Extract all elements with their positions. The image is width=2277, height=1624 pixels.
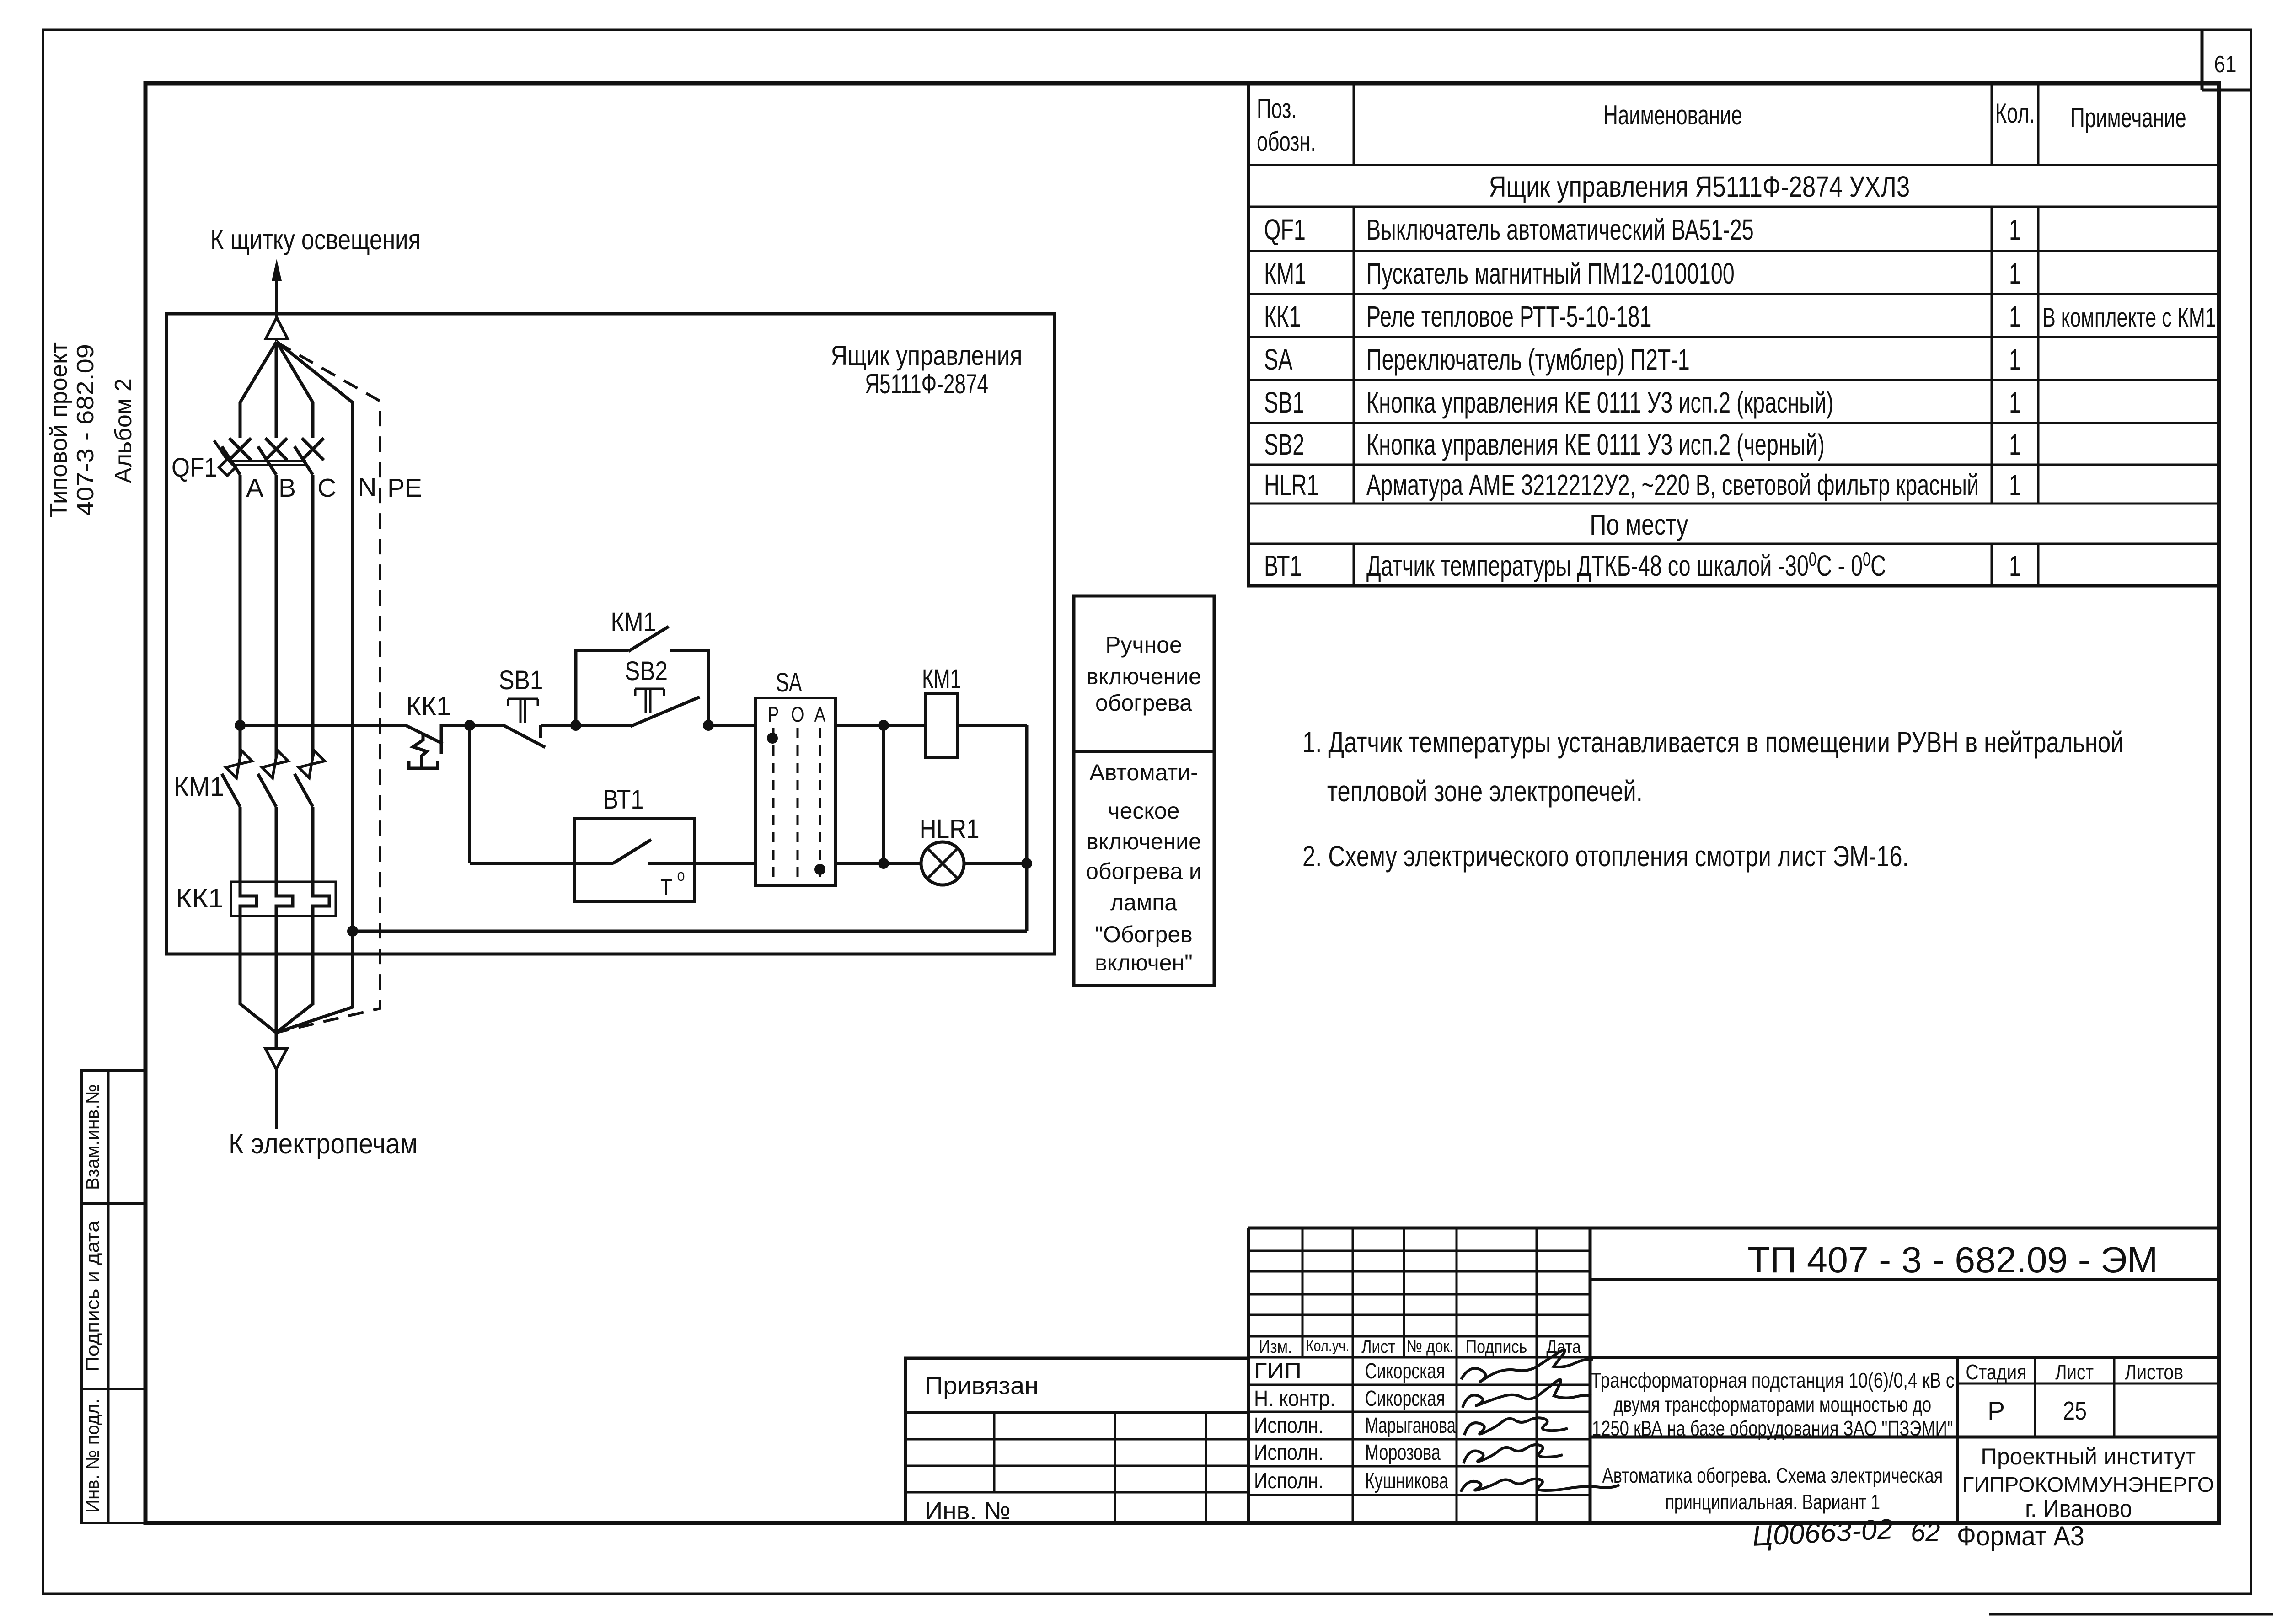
svg-text:Р: Р xyxy=(1988,1396,2005,1426)
circuit breaker QF1 xyxy=(214,438,324,476)
svg-text:Морозова: Морозова xyxy=(1365,1440,1441,1464)
svg-text:Кол.: Кол. xyxy=(1995,98,2035,129)
wire node to KM1 coil xyxy=(884,724,926,727)
svg-text:Альбом 2: Альбом 2 xyxy=(110,378,137,483)
svg-text:обозн.: обозн. xyxy=(1257,126,1316,157)
svg-text:1: 1 xyxy=(2009,386,2021,419)
svg-text:К щитку освещения: К щитку освещения xyxy=(210,224,421,255)
svg-text:Сикорская: Сикорская xyxy=(1365,1386,1445,1410)
wire fan to phase C xyxy=(277,342,313,438)
contactor KM1 main contacts xyxy=(222,750,325,807)
svg-text:По месту: По месту xyxy=(1590,509,1688,541)
svg-text:Трансформаторная подстанция 10: Трансформаторная подстанция 10(6)/0,4 кВ… xyxy=(1591,1368,1955,1392)
svg-text:о: о xyxy=(677,867,685,885)
wire fan to phase A xyxy=(240,342,277,438)
table row КМ1 xyxy=(1264,257,2021,290)
svg-text:HLR1: HLR1 xyxy=(1264,468,1318,501)
svg-text:"Обогрев: "Обогрев xyxy=(1095,922,1193,947)
svg-text:SB2: SB2 xyxy=(625,656,668,686)
svg-text:Автоматика обогрева. Схема эле: Автоматика обогрева. Схема электрическая xyxy=(1602,1464,1943,1487)
BT1 T° mark xyxy=(660,867,685,900)
wire node to SB1 xyxy=(470,724,504,727)
svg-text:PE: PE xyxy=(387,473,422,503)
wire phase C (QF1 to KM1) xyxy=(311,475,315,763)
svg-text:1250 кВА на базе оборудования: 1250 кВА на базе оборудования ЗАО "ПЗЭМИ… xyxy=(1592,1416,1953,1440)
wire PE (dashed) xyxy=(277,343,380,1032)
svg-text:Пускатель магнитный ПМ12-01001: Пускатель магнитный ПМ12-0100100 xyxy=(1366,257,1735,290)
svg-text:Наименование: Наименование xyxy=(1603,100,1742,130)
svg-text:Стадия: Стадия xyxy=(1966,1361,2026,1384)
svg-text:КМ1: КМ1 xyxy=(611,608,656,637)
table row ВТ1 xyxy=(1264,548,2021,582)
wire right rail down xyxy=(1025,725,1029,931)
svg-text:Примечание: Примечание xyxy=(2070,102,2186,133)
svg-text:Р: Р xyxy=(768,702,779,726)
node on right rail xyxy=(1021,858,1032,869)
SA contact dot on Р xyxy=(767,733,778,744)
svg-text:обогрева и: обогрева и xyxy=(1086,858,1202,884)
svg-text:КК1: КК1 xyxy=(1264,300,1301,333)
svg-text:Ручное: Ручное xyxy=(1105,632,1182,658)
album label (rotated) xyxy=(110,378,137,483)
SA position line О (dashed) xyxy=(797,728,799,877)
svg-text:КК1: КК1 xyxy=(406,692,451,722)
svg-text:включен": включен" xyxy=(1095,950,1193,975)
indicator lamp HLR1 xyxy=(921,842,964,885)
signature ГИП xyxy=(1461,1350,1593,1382)
stamp box Подпись и дата xyxy=(82,1203,145,1389)
wire phase B (KM1 to KK1 heater) xyxy=(276,807,293,1048)
table row КК1 xyxy=(1264,300,2216,333)
thermal relay contact KK1 (NC) xyxy=(406,724,443,768)
wire SB2 to SA xyxy=(708,724,755,727)
SA position labels Р О А xyxy=(768,702,826,726)
enclosure box Ящик управления Я5111Ф-2874 xyxy=(166,314,1055,954)
svg-text:Листов: Листов xyxy=(2125,1361,2183,1384)
project label (rotated): Типовой проект xyxy=(46,342,72,518)
svg-text:1: 1 xyxy=(2009,300,2021,333)
node SB2-branch right xyxy=(703,720,714,731)
wire automatic branch down xyxy=(468,725,471,863)
wire automatic branch to BT1 xyxy=(470,862,575,865)
svg-text:№ док.: № док. xyxy=(1406,1337,1453,1356)
svg-text:Н. контр.: Н. контр. xyxy=(1254,1386,1335,1411)
svg-text:Т: Т xyxy=(660,874,672,900)
temperature sensor BT1 box xyxy=(575,818,695,902)
component table grid xyxy=(1248,83,2219,586)
svg-text:SB2: SB2 xyxy=(1264,428,1304,461)
wire SA to node (lamp line) xyxy=(836,862,884,865)
table header Поз. обозн. xyxy=(1257,93,1316,157)
wire bottom return to N xyxy=(353,930,1027,933)
svg-text:1: 1 xyxy=(2009,213,2021,246)
svg-text:Изм.: Изм. xyxy=(1259,1336,1292,1356)
title block organization xyxy=(1962,1444,2214,1522)
title block Стадия Лист Листов xyxy=(1966,1361,2183,1384)
wire vertical node-to-lamp-line xyxy=(882,725,885,863)
thermal relay KK1 heater box xyxy=(231,882,336,916)
svg-text:1: 1 xyxy=(2009,428,2021,461)
svg-text:QF1: QF1 xyxy=(1264,213,1306,246)
title block header row labels xyxy=(1259,1336,1581,1356)
SA contact dot on А xyxy=(814,864,825,875)
table row HLR1 xyxy=(1264,468,2021,501)
svg-text:ВТ1: ВТ1 xyxy=(603,785,643,815)
legend text: Автоматическое включение обогрева и лампа Обогрев включен xyxy=(1086,760,1202,975)
svg-text:25: 25 xyxy=(2063,1397,2087,1426)
svg-text:Ящик управления: Ящик управления xyxy=(831,340,1023,371)
svg-text:1. Датчик температуры устанавл: 1. Датчик температуры устанавливается в … xyxy=(1302,727,2124,759)
svg-text:А: А xyxy=(814,702,826,726)
wire KK1 to node xyxy=(442,724,470,727)
title block row ГИП Сикорская xyxy=(1254,1358,1445,1383)
wire bypass branch up-left xyxy=(576,650,628,725)
wire N (full height) xyxy=(276,342,353,1033)
page number box 61 xyxy=(2202,31,2251,90)
svg-text:1: 1 xyxy=(2009,343,2021,376)
svg-text:Подпись и дата: Подпись и дата xyxy=(83,1221,103,1372)
signature Морозова xyxy=(1463,1445,1563,1463)
selector switch SA box xyxy=(755,698,836,886)
svg-text:Сикорская: Сикорская xyxy=(1365,1359,1445,1383)
wire lamp to right rail xyxy=(964,862,1027,865)
wire node to lamp HLR1 xyxy=(884,862,921,865)
wire feeder up with arrow xyxy=(272,259,282,341)
svg-text:включение: включение xyxy=(1086,664,1201,689)
table row QF1 xyxy=(1264,213,2021,246)
svg-text:Я5111Ф-2874: Я5111Ф-2874 xyxy=(865,369,988,399)
svg-text:ческое: ческое xyxy=(1108,798,1180,824)
SA position line Р (dashed) xyxy=(772,728,775,877)
svg-text:HLR1: HLR1 xyxy=(920,814,980,844)
svg-text:1: 1 xyxy=(2009,549,2021,582)
table row SB2 xyxy=(1264,428,2021,461)
stamp box Инв. № подл. xyxy=(82,1389,145,1523)
svg-text:SB1: SB1 xyxy=(1264,386,1304,419)
svg-text:КМ1: КМ1 xyxy=(1264,257,1306,290)
svg-text:1: 1 xyxy=(2009,257,2021,290)
svg-text:К электропечам: К электропечам xyxy=(229,1127,418,1159)
svg-text:КМ1: КМ1 xyxy=(174,772,224,802)
svg-text:КК1: КК1 xyxy=(176,883,224,913)
node on lamp line xyxy=(878,858,889,869)
svg-text:SA: SA xyxy=(776,668,802,697)
wire SB1 to node xyxy=(541,724,576,727)
svg-text:ВТ1: ВТ1 xyxy=(1264,549,1302,582)
title block grid xyxy=(1248,1228,2219,1523)
svg-text:Исполн.: Исполн. xyxy=(1254,1441,1323,1465)
svg-text:Привязан: Привязан xyxy=(925,1372,1039,1399)
svg-text:Выключатель автоматический ВА5: Выключатель автоматический ВА51-25 xyxy=(1366,213,1754,246)
svg-text:Автомати-: Автомати- xyxy=(1089,760,1198,785)
binding table Привязан xyxy=(905,1358,1248,1523)
svg-text:В комплекте с КМ1: В комплекте с КМ1 xyxy=(2042,303,2216,332)
node: tap on phase A xyxy=(235,720,246,731)
pushbutton SB1 (NC, stop) xyxy=(504,699,545,747)
svg-text:лампа: лампа xyxy=(1110,890,1177,915)
node after KK1 xyxy=(464,720,475,731)
svg-text:О: О xyxy=(791,702,804,726)
wire control line A to KK1 contact xyxy=(240,724,407,727)
svg-text:Кушникова: Кушникова xyxy=(1365,1469,1448,1493)
stamp box Взам.инв.№ xyxy=(82,1071,145,1203)
enclosure label xyxy=(831,340,1023,400)
contactor coil KM1 xyxy=(926,694,957,757)
svg-text:Подпись: Подпись xyxy=(1466,1336,1527,1356)
title block project name xyxy=(1591,1368,1955,1440)
svg-text:Формат А3: Формат А3 xyxy=(1957,1521,2084,1552)
wire fan phase B xyxy=(275,342,278,438)
BT1 contact xyxy=(575,840,695,863)
svg-text:Кнопка управления КЕ 0111 У3 и: Кнопка управления КЕ 0111 У3 исп.2 (черн… xyxy=(1366,428,1825,461)
svg-text:ТП 407 - 3 - 682.09 - ЭМ: ТП 407 - 3 - 682.09 - ЭМ xyxy=(1747,1239,2158,1281)
svg-text:г. Иваново: г. Иваново xyxy=(2025,1495,2132,1522)
svg-text:1: 1 xyxy=(2009,468,2021,501)
svg-text:Исполн.: Исполн. xyxy=(1254,1469,1323,1493)
svg-text:Исполн.: Исполн. xyxy=(1254,1414,1323,1438)
svg-text:тепловой зоне электропечей.: тепловой зоне электропечей. xyxy=(1327,775,1643,808)
svg-text:ГИПРОКОММУНЭНЕРГО: ГИПРОКОММУНЭНЕРГО xyxy=(1962,1473,2214,1496)
svg-text:61: 61 xyxy=(2214,51,2236,78)
wire coil to right rail xyxy=(957,724,1027,727)
svg-text:обогрева: обогрева xyxy=(1095,690,1192,716)
svg-text:Реле тепловое РТТ-5-10-181: Реле тепловое РТТ-5-10-181 xyxy=(1366,300,1651,333)
svg-text:B: B xyxy=(279,473,296,503)
svg-text:407-3 - 682.09: 407-3 - 682.09 xyxy=(72,344,99,516)
node on N xyxy=(347,926,358,937)
signature Кушникова xyxy=(1461,1479,1619,1492)
svg-text:Типовой проект: Типовой проект xyxy=(46,342,72,518)
wire BT1 to SA xyxy=(695,862,755,865)
svg-text:QF1: QF1 xyxy=(171,452,217,482)
svg-text:Ящик управления Я5111Ф-2874 УХ: Ящик управления Я5111Ф-2874 УХЛ3 xyxy=(1489,171,1910,203)
title block row Исполн. Марыганова xyxy=(1254,1413,1456,1437)
wire bypass branch right-down xyxy=(670,650,708,725)
svg-text:двумя трансформаторами мощност: двумя трансформаторами мощностью до xyxy=(1613,1393,1931,1416)
title block row Исполн. Кушникова xyxy=(1254,1469,1448,1493)
svg-text:Инв. №: Инв. № xyxy=(925,1497,1011,1525)
wire phase A (QF1 to KM1) xyxy=(239,475,242,763)
svg-text:Арматура АМЕ 3212212У2, ~220 В: Арматура АМЕ 3212212У2, ~220 В, световой… xyxy=(1366,468,1979,501)
svg-text:Лист: Лист xyxy=(1361,1336,1395,1356)
svg-text:SB1: SB1 xyxy=(498,665,543,695)
svg-text:ГИП: ГИП xyxy=(1254,1358,1302,1383)
outgoing feeder triangle (up) xyxy=(266,317,288,339)
SA position line А (dashed) xyxy=(819,728,821,877)
wire phase B (QF1 to KM1) xyxy=(275,475,278,763)
svg-text:Кол.уч.: Кол.уч. xyxy=(1306,1337,1350,1355)
legend text: Ручное включение обогрева xyxy=(1086,632,1201,716)
page edge artifact line xyxy=(1989,1613,2273,1616)
table row SB1 xyxy=(1264,386,2021,419)
signature Марыганова xyxy=(1464,1418,1568,1435)
svg-text:SA: SA xyxy=(1264,343,1293,376)
svg-text:Кнопка управления КЕ 0111 У3 и: Кнопка управления КЕ 0111 У3 исп.2 (крас… xyxy=(1366,386,1833,419)
contactor KM1 auxiliary contact (NO) xyxy=(628,627,669,651)
title block row Исполн. Морозова xyxy=(1254,1440,1441,1465)
svg-text:Поз.: Поз. xyxy=(1257,93,1297,124)
legend box (two cells) xyxy=(1074,596,1214,986)
svg-text:Инв. № подл.: Инв. № подл. xyxy=(83,1399,103,1512)
signature Н. контр. xyxy=(1463,1379,1591,1408)
wire phase C (KM1 to KK1 heater) xyxy=(276,807,329,1033)
title block row Н. контр. Сикорская xyxy=(1254,1386,1445,1411)
svg-text:N: N xyxy=(358,472,376,502)
svg-text:A: A xyxy=(246,473,263,503)
svg-text:Переключатель (тумблер) П2Т-1: Переключатель (тумблер) П2Т-1 xyxy=(1366,343,1690,376)
svg-text:КМ1: КМ1 xyxy=(922,664,961,693)
pushbutton SB2 (NO, start) xyxy=(576,689,700,726)
svg-text:2. Схему электрического отопле: 2. Схему электрического отопления смотри… xyxy=(1302,840,1909,873)
project number label (rotated) xyxy=(72,344,99,516)
svg-text:Лист: Лист xyxy=(2055,1361,2094,1384)
node before KM1 coil xyxy=(878,720,889,731)
svg-text:принципиальная. Вариант 1: принципиальная. Вариант 1 xyxy=(1665,1490,1880,1514)
svg-text:C: C xyxy=(317,473,336,503)
svg-text:включение: включение xyxy=(1086,829,1201,854)
table row SA xyxy=(1264,343,2021,376)
svg-text:62: 62 xyxy=(1911,1517,1940,1547)
outgoing feeder triangle (down) xyxy=(265,1033,287,1129)
wire phase A (KM1 to KK1 heater) xyxy=(240,807,276,1033)
node SB2-branch left xyxy=(570,720,581,731)
wire SA to node xyxy=(836,724,884,727)
title block sheet name xyxy=(1602,1464,1943,1514)
svg-text:Проектный институт: Проектный институт xyxy=(1981,1444,2196,1469)
svg-text:Взам.инв.№: Взам.инв.№ xyxy=(82,1084,103,1190)
svg-text:Датчик температуры ДТКБ-48 со: Датчик температуры ДТКБ-48 со шкалой -30… xyxy=(1366,548,1886,582)
svg-text:Марыганова: Марыганова xyxy=(1365,1413,1456,1437)
